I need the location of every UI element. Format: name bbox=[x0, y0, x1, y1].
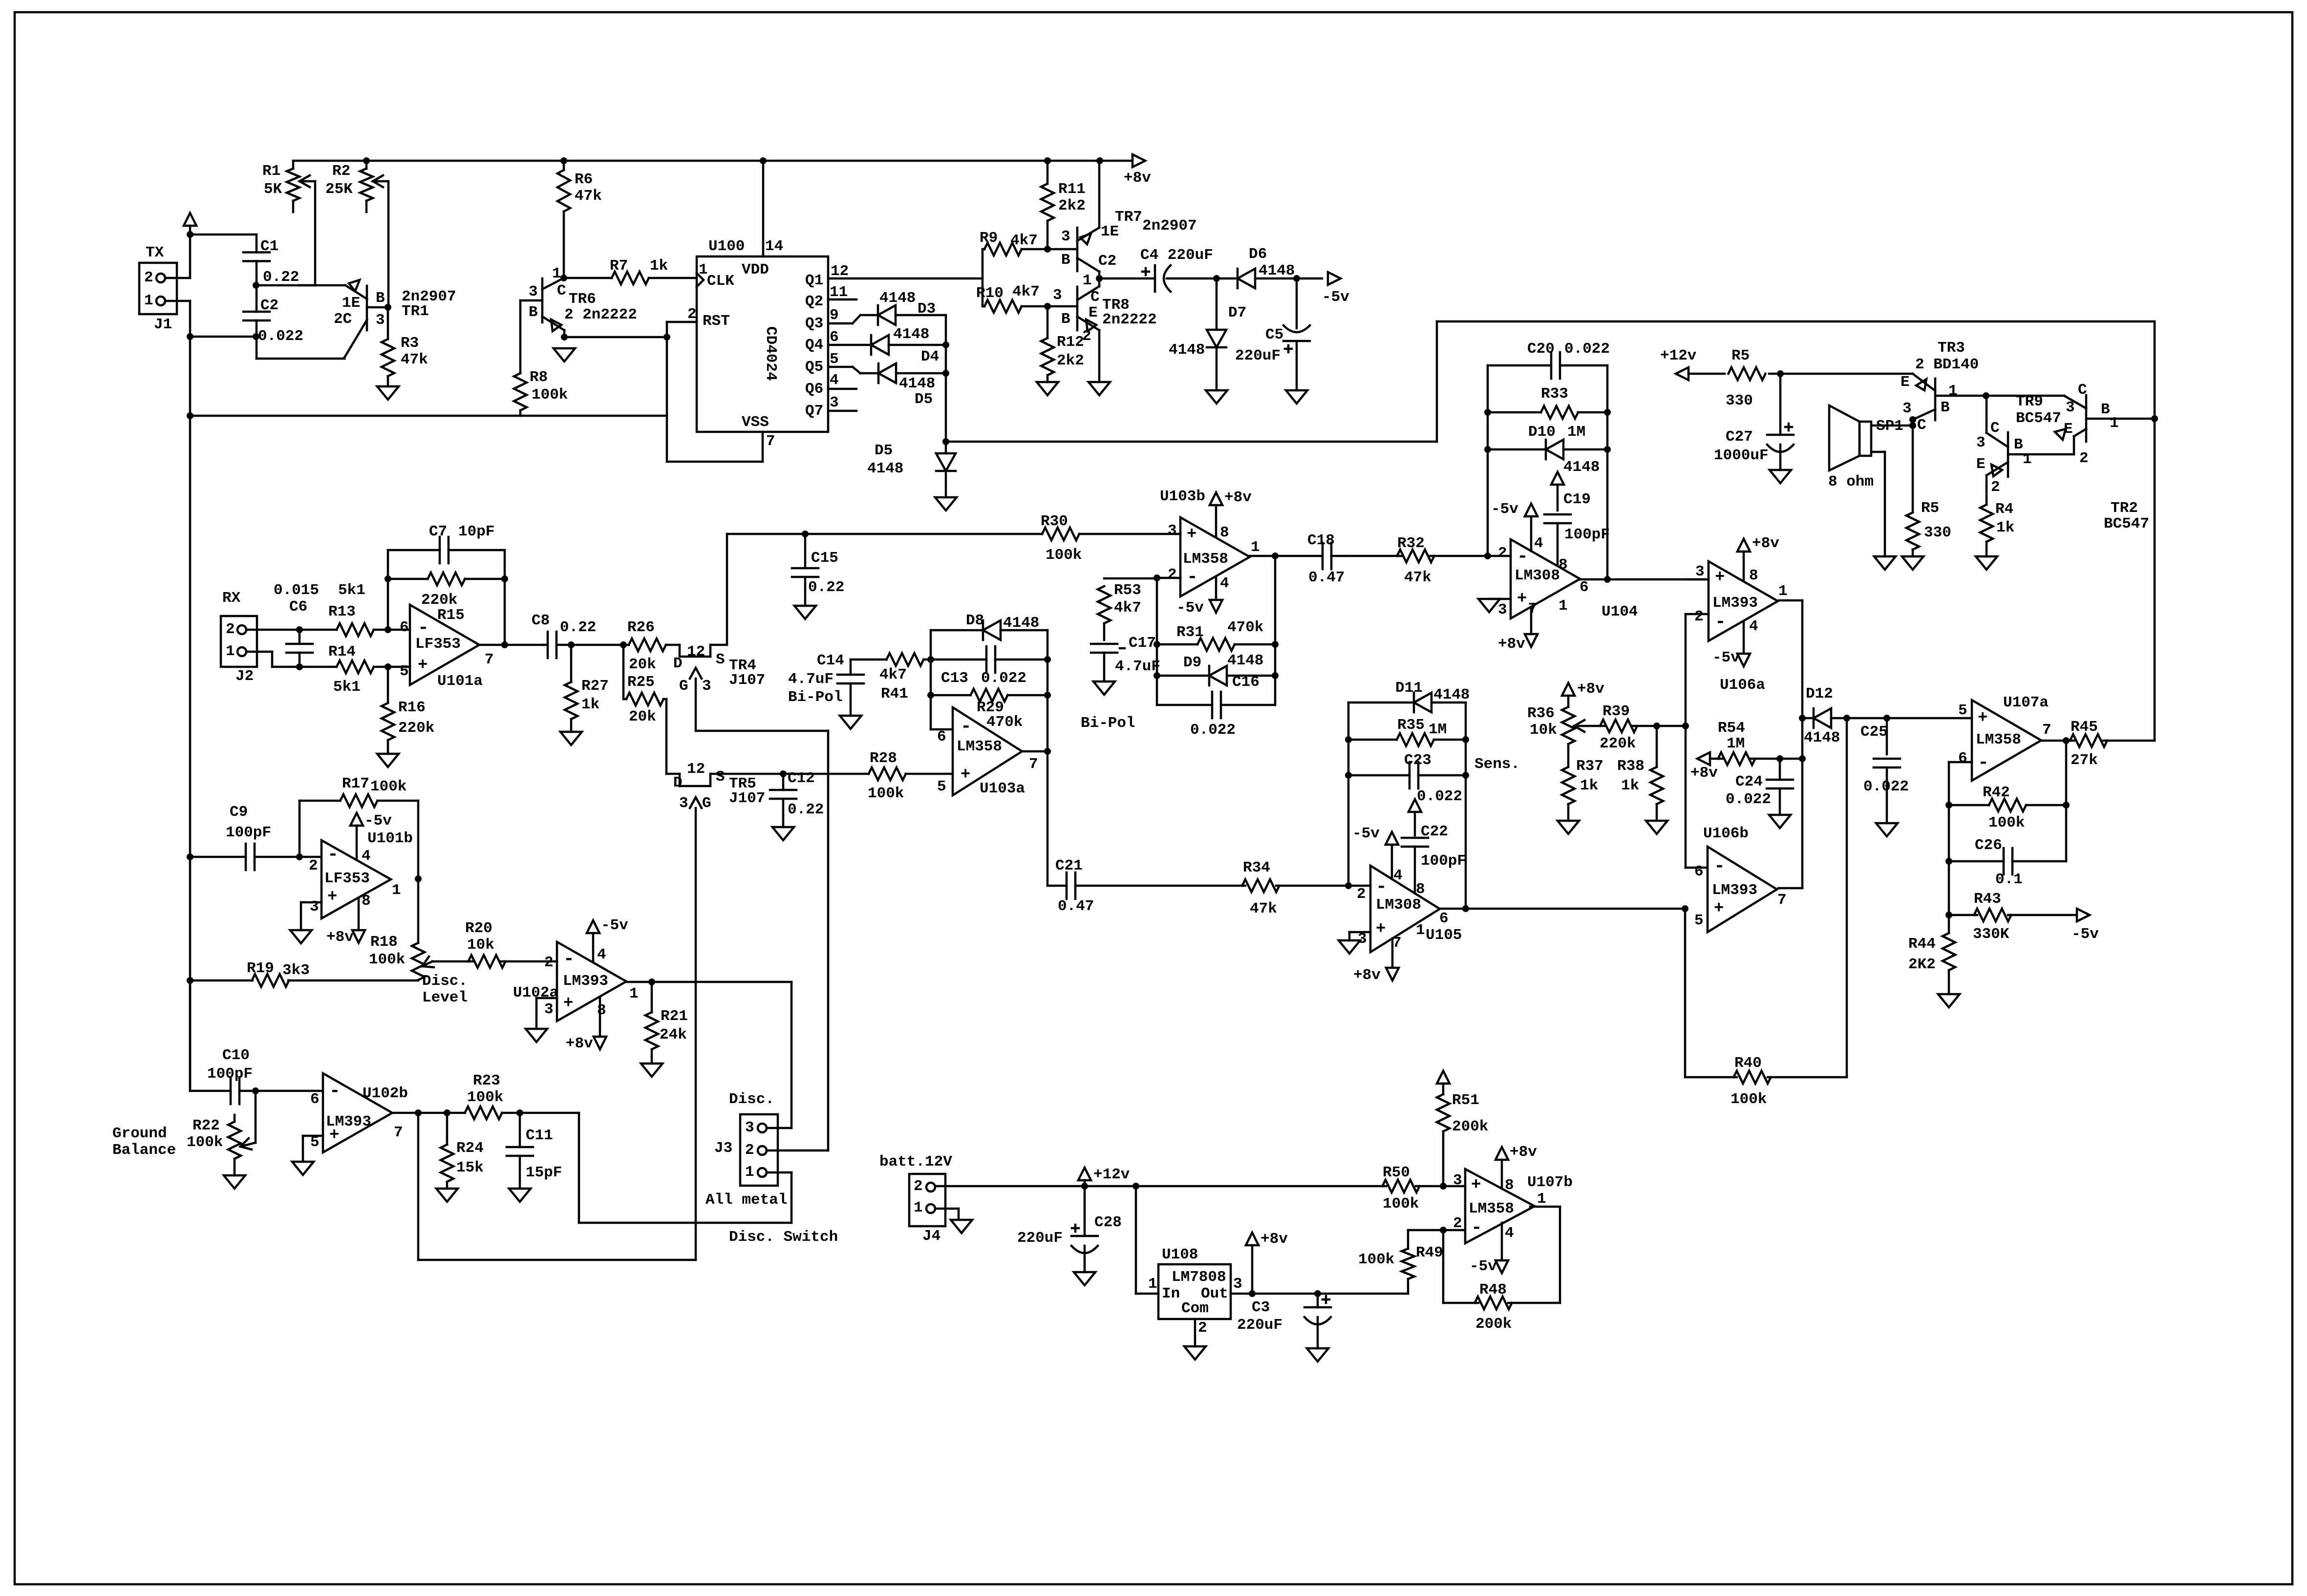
resistor R30 (100k) bbox=[1041, 513, 1180, 564]
svg-text:R26: R26 bbox=[627, 619, 655, 636]
svg-text:R17: R17 bbox=[342, 775, 369, 792]
svg-text:R38: R38 bbox=[1617, 758, 1645, 775]
node U107a out bbox=[2063, 737, 2070, 744]
svg-text:5: 5 bbox=[830, 351, 839, 368]
svg-text:R21: R21 bbox=[661, 1008, 688, 1025]
svg-text:J107: J107 bbox=[729, 790, 765, 807]
diode D3 bbox=[878, 290, 946, 325]
arrow -5v U107b bbox=[1470, 1223, 1508, 1275]
svg-text:VSS: VSS bbox=[742, 414, 769, 431]
wire TR8 base bbox=[1047, 305, 1077, 308]
svg-text:1: 1 bbox=[1559, 597, 1568, 615]
resistor R25 (20k) bbox=[623, 645, 666, 725]
IC U108 (LM7808) bbox=[1148, 1246, 1242, 1337]
op-amp U101b (LF353) bbox=[299, 830, 413, 918]
ground below R27 bbox=[560, 732, 582, 745]
jfet TR5 (J107) bbox=[673, 761, 765, 1260]
svg-text:Disc. Switch: Disc. Switch bbox=[729, 1229, 838, 1246]
arrow -5v U106a bbox=[1712, 621, 1750, 666]
wire U107a fb right bbox=[2063, 741, 2070, 861]
svg-text:R12: R12 bbox=[1057, 334, 1084, 351]
svg-text:TR3: TR3 bbox=[1938, 340, 1965, 357]
wire D11 ladder left bbox=[1345, 702, 1352, 886]
resistor R21 (24k) bbox=[645, 982, 688, 1064]
resistor R12 bbox=[1041, 306, 1084, 382]
svg-text:VDD: VDD bbox=[742, 261, 769, 278]
svg-text:-: - bbox=[327, 844, 339, 865]
ground below C15 bbox=[794, 606, 816, 619]
svg-text:LM393: LM393 bbox=[563, 973, 608, 990]
svg-text:9: 9 bbox=[830, 307, 839, 324]
wire Q1 (pin 12) bbox=[828, 263, 983, 280]
svg-text:+: + bbox=[1187, 525, 1196, 544]
resistor R2 (pot 25K) bbox=[325, 161, 388, 307]
svg-text:LM358: LM358 bbox=[1469, 1200, 1514, 1217]
connector J4 bbox=[879, 1153, 952, 1245]
ground below C14 bbox=[840, 716, 861, 729]
svg-text:1: 1 bbox=[1537, 1191, 1546, 1208]
capacitor C25 (0.022) bbox=[1860, 718, 1909, 823]
connector J1 bbox=[139, 244, 177, 333]
svg-text:R11: R11 bbox=[1058, 181, 1086, 198]
svg-text:4k7: 4k7 bbox=[1010, 232, 1038, 249]
capacitor C3 (220uF) bbox=[1237, 1294, 1331, 1348]
ground below U108 bbox=[1184, 1346, 1206, 1360]
resistor R9 bbox=[980, 230, 1047, 255]
svg-text:Sens.: Sens. bbox=[1474, 756, 1520, 773]
node TR6 collector bbox=[560, 275, 567, 281]
svg-text:R3: R3 bbox=[401, 335, 419, 352]
wire J1 pin1 bbox=[165, 301, 190, 337]
svg-text:100pF: 100pF bbox=[207, 1065, 253, 1083]
svg-text:0.022: 0.022 bbox=[1190, 722, 1236, 739]
wire J4 pin2 rail bbox=[935, 1183, 1386, 1190]
arrow -5v U104 bbox=[1491, 501, 1538, 551]
svg-text:3: 3 bbox=[1976, 434, 1986, 451]
resistor R11 bbox=[1041, 161, 1086, 249]
node C2 bbox=[1096, 253, 1116, 282]
resistor R51 (200k) bbox=[1437, 1071, 1488, 1186]
node U105 pin2 bbox=[1345, 882, 1352, 889]
svg-text:470k: 470k bbox=[1227, 619, 1263, 636]
svg-text:LM7808: LM7808 bbox=[1172, 1269, 1226, 1286]
svg-text:C13: C13 bbox=[941, 670, 968, 687]
svg-text:C23: C23 bbox=[1404, 752, 1431, 769]
node R10/R12 bbox=[1044, 303, 1051, 310]
svg-text:Ground: Ground bbox=[112, 1125, 167, 1142]
svg-text:2: 2 bbox=[1991, 479, 2000, 496]
svg-text:5: 5 bbox=[1958, 702, 1967, 719]
svg-text:1: 1 bbox=[1948, 383, 1958, 400]
capacitor C1 bbox=[243, 234, 299, 286]
power arrow (top of J1 branch) bbox=[184, 213, 196, 234]
capacitor C8 (0.22) bbox=[532, 612, 596, 658]
wire U100 RST bbox=[667, 322, 697, 462]
svg-text:U103b: U103b bbox=[1160, 488, 1205, 505]
wire U107a pin6 bbox=[1945, 762, 1972, 918]
svg-text:2k2: 2k2 bbox=[1057, 352, 1084, 369]
svg-text:20k: 20k bbox=[629, 708, 656, 725]
svg-text:S: S bbox=[716, 651, 725, 668]
svg-text:100k: 100k bbox=[187, 1134, 223, 1151]
op-amp U104 (LM308) bbox=[1488, 535, 1638, 620]
svg-text:-: - bbox=[563, 949, 575, 970]
resistor R43 (330K) bbox=[1949, 891, 2075, 943]
svg-text:C3: C3 bbox=[1252, 1299, 1270, 1316]
svg-text:R45: R45 bbox=[2071, 719, 2098, 736]
svg-text:10k: 10k bbox=[1530, 722, 1557, 739]
diode D5 bbox=[867, 442, 956, 497]
svg-text:2C: 2C bbox=[334, 311, 352, 328]
svg-text:100pF: 100pF bbox=[1421, 852, 1466, 870]
wire J2 pin2 bbox=[246, 629, 299, 631]
ground below D7 bbox=[1206, 390, 1227, 404]
svg-text:+8v: +8v bbox=[1752, 535, 1779, 552]
resistor R45 (27k) bbox=[2041, 719, 2155, 769]
svg-text:100k: 100k bbox=[369, 951, 405, 968]
svg-text:7: 7 bbox=[394, 1124, 403, 1141]
svg-text:D5: D5 bbox=[875, 442, 893, 459]
svg-text:2n2907: 2n2907 bbox=[1142, 217, 1197, 234]
text Bi-Pol bbox=[1081, 715, 1135, 732]
svg-text:+8v: +8v bbox=[1260, 1231, 1288, 1248]
wire U106ab out bus bbox=[1778, 600, 1806, 888]
svg-text:3: 3 bbox=[310, 898, 319, 915]
svg-text:0.1: 0.1 bbox=[1995, 871, 2023, 888]
op-amp U101a (LF353) bbox=[388, 605, 494, 690]
svg-text:R48: R48 bbox=[1479, 1281, 1507, 1298]
arrow +8v U104 pin7 bbox=[1498, 607, 1538, 653]
arrow +12v J4 bbox=[1078, 1166, 1130, 1186]
svg-text:U107a: U107a bbox=[2003, 694, 2049, 711]
wire U104 out bbox=[1580, 578, 1709, 581]
svg-text:3: 3 bbox=[1695, 563, 1705, 580]
svg-text:2: 2 bbox=[687, 306, 697, 323]
svg-text:D7: D7 bbox=[1228, 304, 1246, 321]
svg-text:12: 12 bbox=[687, 643, 705, 660]
resistor R44 (2K2) bbox=[1908, 915, 1955, 994]
svg-text:R41: R41 bbox=[881, 685, 908, 702]
resistor R37 (1k) bbox=[1562, 744, 1603, 821]
capacitor C11 (15pF) bbox=[507, 1113, 562, 1189]
svg-text:0.022: 0.022 bbox=[1564, 340, 1610, 358]
ground stub U104 pin3 bbox=[1478, 599, 1511, 612]
svg-text:R31: R31 bbox=[1176, 624, 1204, 641]
svg-text:6: 6 bbox=[1694, 863, 1704, 880]
svg-text:U100: U100 bbox=[708, 238, 745, 255]
svg-text:1k: 1k bbox=[1580, 777, 1598, 794]
resistor R54 (1M) bbox=[1690, 720, 1802, 782]
svg-text:C24: C24 bbox=[1735, 773, 1763, 790]
wire D11 ladder right bbox=[1462, 702, 1469, 912]
svg-text:5: 5 bbox=[400, 663, 409, 680]
svg-text:3: 3 bbox=[745, 1119, 754, 1136]
node U101b out bbox=[415, 875, 422, 882]
svg-text:+8v: +8v bbox=[1690, 765, 1718, 782]
arrow -5v U105 bbox=[1352, 825, 1398, 879]
wire U100 pin7 bbox=[667, 432, 763, 462]
resistor R48 (200k) bbox=[1443, 1207, 1560, 1333]
resistor R32 (47k) bbox=[1346, 535, 1488, 586]
svg-text:+12v: +12v bbox=[1093, 1166, 1130, 1183]
svg-text:2K2: 2K2 bbox=[1908, 956, 1936, 973]
svg-text:5k1: 5k1 bbox=[338, 582, 365, 599]
ground below R16 bbox=[377, 754, 399, 767]
wire Q2 (pin 11) bbox=[828, 284, 856, 301]
resistor R10 bbox=[976, 283, 1047, 313]
svg-text:R53: R53 bbox=[1114, 582, 1141, 599]
svg-text:BC547: BC547 bbox=[2104, 515, 2149, 532]
svg-text:220uF: 220uF bbox=[1235, 347, 1281, 364]
node C27 top bbox=[1777, 370, 1784, 377]
svg-text:5k1: 5k1 bbox=[333, 679, 361, 696]
svg-text:R51: R51 bbox=[1452, 1092, 1479, 1109]
svg-text:3: 3 bbox=[1453, 1172, 1462, 1189]
svg-text:5K: 5K bbox=[264, 181, 282, 198]
wire U106b pin5 bbox=[1684, 909, 1687, 1077]
resistor R3 bbox=[382, 307, 428, 386]
svg-text:In: In bbox=[1162, 1285, 1180, 1302]
svg-text:R44: R44 bbox=[1908, 936, 1936, 953]
svg-text:B: B bbox=[2014, 436, 2023, 453]
text Sens. bbox=[1474, 756, 1520, 773]
svg-text:100k: 100k bbox=[532, 386, 568, 404]
node R9/R11 bbox=[1044, 246, 1051, 253]
svg-text:3: 3 bbox=[1233, 1276, 1242, 1293]
svg-text:100k: 100k bbox=[1046, 547, 1082, 564]
wire common horizontal bbox=[190, 415, 667, 417]
arrow +8v U105 bbox=[1353, 938, 1399, 984]
svg-text:220uF: 220uF bbox=[1237, 1317, 1282, 1334]
node C24 top bbox=[1776, 755, 1783, 762]
svg-text:C2: C2 bbox=[260, 297, 278, 314]
svg-text:7: 7 bbox=[485, 651, 494, 668]
svg-text:+: + bbox=[327, 888, 337, 906]
svg-text:4148: 4148 bbox=[1169, 341, 1205, 359]
resistor R5 (330) bbox=[1688, 347, 1913, 409]
svg-text:4148: 4148 bbox=[1003, 615, 1039, 632]
node inv in U101a bbox=[384, 626, 391, 633]
svg-text:R13: R13 bbox=[328, 603, 356, 620]
svg-text:B: B bbox=[1061, 252, 1070, 269]
svg-text:+8v: +8v bbox=[1577, 681, 1604, 698]
svg-text:R23: R23 bbox=[473, 1072, 500, 1089]
svg-text:R9: R9 bbox=[980, 230, 998, 247]
svg-text:15pF: 15pF bbox=[526, 1164, 562, 1181]
svg-text:Q5: Q5 bbox=[805, 359, 823, 376]
svg-text:4k7: 4k7 bbox=[879, 666, 907, 683]
svg-text:D12: D12 bbox=[1806, 685, 1833, 702]
svg-text:7: 7 bbox=[1528, 600, 1538, 617]
svg-text:8: 8 bbox=[1416, 881, 1425, 898]
svg-text:1: 1 bbox=[745, 1164, 754, 1181]
speaker SP1 bbox=[1828, 405, 1903, 490]
svg-text:470k: 470k bbox=[986, 714, 1023, 731]
svg-text:R18: R18 bbox=[370, 934, 398, 951]
svg-text:LF353: LF353 bbox=[324, 870, 370, 887]
svg-text:1: 1 bbox=[226, 643, 235, 660]
svg-text:330: 330 bbox=[1924, 524, 1951, 541]
capacitor C28 (220uF) bbox=[1017, 1186, 1122, 1272]
svg-text:+8v: +8v bbox=[1510, 1144, 1537, 1161]
svg-text:R10: R10 bbox=[976, 285, 1004, 302]
svg-text:R7: R7 bbox=[610, 257, 628, 275]
svg-text:14: 14 bbox=[765, 238, 783, 255]
svg-text:6: 6 bbox=[400, 619, 409, 636]
svg-text:LF353: LF353 bbox=[415, 636, 461, 653]
svg-text:B: B bbox=[1941, 399, 1950, 416]
svg-text:4.7uF: 4.7uF bbox=[1115, 658, 1160, 675]
ground below R12 bbox=[1037, 382, 1058, 395]
arrow +8v U102a bbox=[566, 998, 606, 1052]
resistor R1 (pot 5K) bbox=[262, 161, 315, 285]
svg-text:100k: 100k bbox=[1988, 814, 2025, 831]
ground below SP1 bbox=[1874, 556, 1896, 570]
wire +8v rail top bbox=[293, 157, 1103, 164]
svg-text:LM358: LM358 bbox=[1976, 731, 2021, 748]
svg-text:0.022: 0.022 bbox=[1726, 791, 1771, 808]
svg-text:R1: R1 bbox=[262, 163, 280, 180]
svg-text:8: 8 bbox=[1559, 556, 1568, 574]
svg-text:100pF: 100pF bbox=[226, 824, 271, 841]
svg-text:1: 1 bbox=[2110, 415, 2119, 432]
svg-text:47k: 47k bbox=[1250, 900, 1277, 917]
op-amp U102b (LM393) bbox=[310, 1073, 408, 1152]
svg-text:RST: RST bbox=[703, 313, 730, 330]
svg-text:2 2n2222: 2 2n2222 bbox=[564, 306, 637, 323]
arrow +8v U106a bbox=[1737, 535, 1779, 581]
svg-text:47k: 47k bbox=[401, 351, 428, 368]
wire J3 pin1 bbox=[767, 1171, 791, 1174]
svg-text:2: 2 bbox=[1198, 1319, 1207, 1337]
svg-text:5: 5 bbox=[937, 778, 946, 795]
transistor TR3 (BD140) bbox=[1901, 340, 1986, 434]
ground below D5 bbox=[935, 497, 957, 511]
svg-text:-5v: -5v bbox=[364, 812, 392, 830]
resistor R40 (100k) bbox=[1685, 1055, 1847, 1108]
svg-text:8: 8 bbox=[1749, 567, 1758, 584]
svg-text:TR1: TR1 bbox=[402, 303, 429, 320]
wire diode bus bbox=[942, 315, 949, 445]
svg-text:R43: R43 bbox=[1974, 891, 2001, 908]
svg-text:1M: 1M bbox=[1567, 424, 1585, 441]
svg-text:U101a: U101a bbox=[437, 673, 483, 690]
svg-text:D4: D4 bbox=[921, 348, 939, 365]
svg-text:-: - bbox=[1715, 612, 1726, 633]
arrow +8v U103b bbox=[1210, 489, 1252, 536]
wire R25 to TR5 bbox=[666, 699, 680, 774]
svg-text:D3: D3 bbox=[918, 300, 936, 318]
svg-text:R34: R34 bbox=[1243, 859, 1270, 876]
svg-text:B: B bbox=[376, 290, 385, 307]
svg-text:C18: C18 bbox=[1307, 532, 1335, 549]
svg-text:J3: J3 bbox=[714, 1140, 732, 1157]
svg-text:C10: C10 bbox=[222, 1047, 250, 1064]
ground below TR8 bbox=[1089, 382, 1110, 395]
wire TR1 collector loop bbox=[256, 337, 344, 359]
ground below R4 bbox=[1976, 556, 1997, 570]
svg-text:LM358: LM358 bbox=[1183, 551, 1228, 568]
svg-text:U103a: U103a bbox=[980, 780, 1025, 797]
svg-text:Level: Level bbox=[422, 989, 468, 1006]
svg-text:batt.12V: batt.12V bbox=[879, 1153, 952, 1170]
svg-text:6: 6 bbox=[1439, 910, 1449, 927]
wire U103a feedback right bbox=[1044, 630, 1051, 755]
svg-text:-: - bbox=[1714, 856, 1725, 877]
capacitor C18 (0.47) bbox=[1275, 532, 1346, 586]
diode D4 bbox=[871, 326, 946, 365]
svg-text:R42: R42 bbox=[1983, 784, 2010, 801]
node R27 top bbox=[568, 641, 575, 648]
svg-text:R27: R27 bbox=[581, 678, 609, 695]
wire TR4 source up bbox=[710, 534, 727, 645]
svg-text:20k: 20k bbox=[629, 656, 656, 673]
svg-text:-5v: -5v bbox=[1352, 825, 1380, 842]
svg-text:E: E bbox=[2064, 421, 2073, 438]
svg-text:10k: 10k bbox=[467, 936, 494, 954]
svg-text:-: - bbox=[1376, 876, 1387, 897]
svg-text:1k: 1k bbox=[1996, 519, 2014, 536]
svg-text:4: 4 bbox=[1220, 575, 1229, 592]
svg-text:0.015: 0.015 bbox=[274, 582, 319, 599]
svg-text:R49: R49 bbox=[1416, 1244, 1443, 1261]
resistor R14 bbox=[299, 643, 388, 696]
svg-text:1: 1 bbox=[699, 261, 708, 278]
arrow +8v U108 bbox=[1246, 1231, 1288, 1294]
wire TR1 emitter bbox=[256, 284, 345, 287]
capacitor C26 (0.1) bbox=[1949, 837, 2066, 888]
op-amp U102a (LM393) bbox=[513, 942, 639, 1021]
svg-text:BC547: BC547 bbox=[2016, 410, 2061, 427]
ground stub U105 pin3 bbox=[1339, 932, 1370, 954]
svg-text:-: - bbox=[1978, 752, 1989, 773]
wire U102b to TR5 gate bbox=[418, 1113, 696, 1260]
svg-text:R4: R4 bbox=[1995, 501, 2013, 518]
wire U108 in bbox=[1136, 1186, 1158, 1294]
svg-text:1: 1 bbox=[1778, 583, 1788, 600]
svg-text:5: 5 bbox=[1694, 912, 1704, 929]
arrow -5v U102a bbox=[587, 917, 628, 961]
svg-text:3: 3 bbox=[529, 283, 538, 300]
capacitor C17 (4.7uF) bbox=[1091, 635, 1160, 681]
svg-text:E: E bbox=[1089, 304, 1098, 321]
svg-text:+: + bbox=[1714, 899, 1724, 918]
svg-text:Bi-Pol: Bi-Pol bbox=[1081, 715, 1135, 732]
wire U108 com bbox=[1194, 1319, 1196, 1346]
wire TR5 source bbox=[710, 773, 783, 775]
wire U103b pin2 bbox=[1153, 575, 1180, 705]
svg-text:R39: R39 bbox=[1602, 703, 1630, 720]
svg-text:330K: 330K bbox=[1973, 926, 2009, 943]
svg-text:2: 2 bbox=[144, 269, 153, 286]
wire R30 top row bbox=[727, 531, 1042, 537]
svg-text:+: + bbox=[563, 994, 573, 1013]
svg-text:J2: J2 bbox=[235, 668, 254, 685]
svg-text:2: 2 bbox=[309, 857, 318, 874]
svg-text:4.7uF: 4.7uF bbox=[788, 671, 833, 688]
svg-text:2k2: 2k2 bbox=[1058, 197, 1086, 214]
ground below C5 bbox=[1286, 390, 1307, 404]
svg-text:2: 2 bbox=[745, 1142, 754, 1159]
wire TR4 gate run bbox=[696, 731, 828, 1150]
capacitor C2 bbox=[243, 285, 303, 345]
svg-text:0.22: 0.22 bbox=[263, 269, 299, 286]
svg-text:+8v: +8v bbox=[1353, 967, 1381, 984]
ground below C28 bbox=[1074, 1272, 1095, 1285]
svg-text:7: 7 bbox=[1029, 756, 1038, 773]
resistor R42 (100k) bbox=[1949, 784, 2066, 831]
connector J3 bbox=[705, 1091, 838, 1246]
